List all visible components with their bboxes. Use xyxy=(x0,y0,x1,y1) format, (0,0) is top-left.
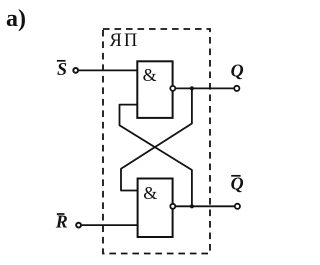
svg-text:&: & xyxy=(143,183,157,203)
figure label a) xyxy=(6,6,26,32)
NAND gate 2 (lower) body xyxy=(138,179,173,238)
label Q xyxy=(231,61,244,81)
wire S input xyxy=(79,69,137,71)
wire R input xyxy=(82,224,138,226)
wire feedback gate1-out to gate2-in (cross coupling) xyxy=(121,88,192,190)
block label ЯП xyxy=(110,31,140,51)
input terminal R xyxy=(76,223,81,228)
NAND gate 1 inversion bubble xyxy=(170,86,175,91)
NAND gate 2 inversion bubble xyxy=(170,204,175,209)
label S-bar xyxy=(57,59,67,79)
input terminal S xyxy=(73,68,78,73)
svg-text:а): а) xyxy=(6,6,26,32)
wire gate1 output to Q xyxy=(176,87,234,89)
svg-text:S: S xyxy=(57,59,67,79)
junction node on Q line xyxy=(190,86,194,90)
output terminal Q-bar xyxy=(235,204,240,209)
junction node on Q-bar line xyxy=(190,204,194,208)
svg-text:ЯП: ЯП xyxy=(110,31,140,51)
NAND gate 1 (upper) body xyxy=(137,61,172,118)
wire feedback gate2-out to gate1-in (cross coupling) xyxy=(120,105,192,207)
wire gate2 output to Q-bar xyxy=(176,205,235,207)
output terminal Q xyxy=(234,86,239,91)
dashed block boundary (latch cell) xyxy=(103,29,210,254)
svg-text:Q: Q xyxy=(231,61,244,81)
label Q-bar xyxy=(231,174,244,194)
label R-bar xyxy=(55,212,68,232)
svg-text:&: & xyxy=(143,65,157,85)
